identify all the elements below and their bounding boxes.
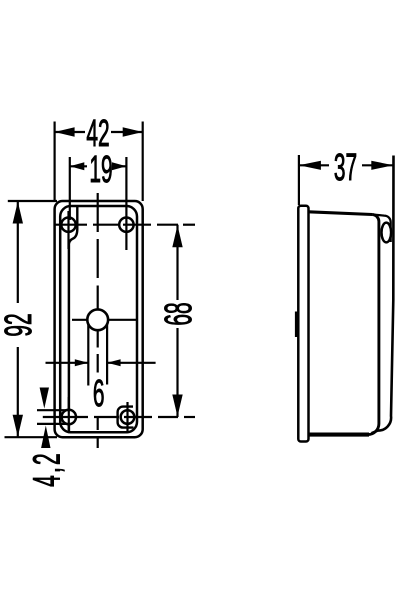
horizontal centerline through bottom holes (chain) <box>43 416 195 418</box>
side view mounting plate slab <box>298 206 308 442</box>
slot below center hole <box>87 324 89 386</box>
keyhole slot edge lower <box>37 423 68 425</box>
dimension 42 line and arrows <box>55 131 85 133</box>
svg-text:6: 6 <box>93 373 105 415</box>
vertical cross bottom-left hole <box>68 397 70 430</box>
screw hole top-left <box>61 218 75 232</box>
screw hole bottom-left <box>62 410 76 424</box>
channel line left <box>68 245 71 431</box>
dimension 68 line and arrows <box>176 225 178 300</box>
dimension 19 line and arrows <box>70 165 87 167</box>
svg-text:68: 68 <box>158 302 200 325</box>
vertical centerline (chain) <box>97 193 99 448</box>
front view outer outline <box>55 201 143 437</box>
center hole <box>87 309 108 330</box>
horizontal centerline through top holes (chain) <box>55 224 195 226</box>
keyhole slot edge upper <box>37 409 68 411</box>
horizontal centerline through center hole (chain) <box>72 319 137 321</box>
pocket around bottom-right hole <box>118 407 134 428</box>
pocket around top-left hole <box>69 207 77 246</box>
dimension 4,2 arrows <box>40 388 49 409</box>
vertical cross bottom-right hole <box>126 402 128 432</box>
svg-text:37: 37 <box>334 147 357 189</box>
side view outer shell top-right <box>372 215 391 243</box>
screw hole top-right <box>119 218 133 232</box>
svg-text:92: 92 <box>0 313 40 336</box>
side view slab tab bump <box>295 312 298 338</box>
dimension 37 extension line <box>298 155 300 205</box>
side view body right outline <box>368 215 379 435</box>
vertical cross top-left hole <box>67 211 69 249</box>
svg-text:19: 19 <box>89 149 112 191</box>
dimension 42 extension lines <box>53 122 55 202</box>
side view body top edge <box>309 212 373 215</box>
front view inner outline <box>60 206 137 432</box>
dimension 6 (slot width) lines and arrows <box>46 362 89 364</box>
dimension 92 extension lines <box>8 200 57 202</box>
screw hole bottom-right <box>121 410 135 424</box>
svg-text:4,2: 4,2 <box>26 451 68 487</box>
side view hole ellipse <box>382 223 392 243</box>
side view lens face outline <box>372 156 394 434</box>
dimension 92 line and arrows <box>17 201 19 303</box>
side view body bottom edge <box>309 433 369 437</box>
dimension 19 extension lines <box>69 157 71 220</box>
dimension 37 line and arrows <box>299 164 329 166</box>
